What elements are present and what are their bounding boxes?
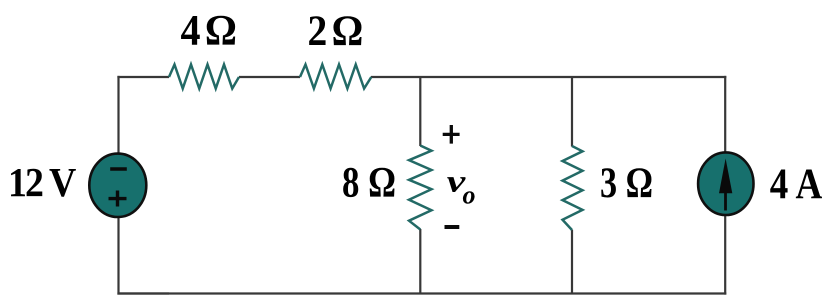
svg-text:4 A: 4 A — [770, 161, 823, 208]
svg-text:o: o — [463, 180, 476, 209]
svg-text:2 Ω: 2 Ω — [308, 8, 362, 55]
voltage source 12 V (circle) — [89, 154, 146, 217]
voltage source minus sign — [110, 167, 127, 171]
wire right branch (above and below current source) — [724, 76, 726, 295]
current source 4 A (circle) — [698, 152, 753, 215]
resistor 8 ohm (vertical zigzag) — [409, 146, 432, 230]
resistor 3 ohm (vertical zigzag) — [563, 146, 583, 230]
resistor 4 ohm (zigzag) — [169, 65, 239, 89]
voltage source plus sign — [109, 191, 127, 207]
plus sign above v_o — [443, 125, 460, 144]
wire top segment right of R2 — [371, 76, 726, 78]
minus sign below v_o — [445, 225, 460, 229]
wire 3-ohm branch (above and below 3 ohm resistor) — [571, 77, 573, 294]
wire left branch (above and below voltage source) — [117, 76, 169, 295]
svg-text:8 Ω: 8 Ω — [342, 160, 396, 207]
wire top segment left of R1 — [117, 76, 169, 78]
svg-text:12 V: 12 V — [8, 159, 77, 205]
current source arrow shaft — [724, 191, 727, 211]
wire bottom — [117, 292, 726, 294]
wire top segment between R1 and R2 — [239, 76, 300, 78]
resistor 2 ohm (zigzag) — [300, 65, 371, 89]
current source arrow head — [719, 159, 732, 194]
svg-text:3 Ω: 3 Ω — [600, 160, 653, 207]
wire middle branch (above and below 8 ohm resistor) — [419, 77, 421, 294]
svg-text:4 Ω: 4 Ω — [181, 8, 236, 55]
